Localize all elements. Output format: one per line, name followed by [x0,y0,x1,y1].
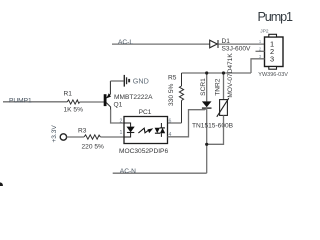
ground GND [124,75,130,87]
wire PUMP1 line [3,101,67,103]
optocoupler PC1 box [124,117,168,144]
svg-text:R3: R3 [78,128,87,135]
wire JP2 pin3 to bus [251,59,265,73]
resistor R1 [67,100,79,104]
svg-text:Pump1: Pump1 [258,10,293,24]
svg-text:R1: R1 [64,91,73,98]
svg-text:GND: GND [133,77,149,86]
light arrow inside PC1 [138,128,153,133]
svg-text:D1: D1 [222,38,231,45]
svg-text:MOC3052PDIP6: MOC3052PDIP6 [119,148,168,155]
svg-text:Q1: Q1 [114,101,123,108]
svg-text:SCR1: SCR1 [200,78,207,96]
wire +3.3V to R3 [67,136,84,138]
svg-text:220 5%: 220 5% [82,144,105,151]
junction dot bus-TNR [222,71,225,74]
connector JP2 [265,34,284,69]
wire AC-N line [113,172,207,174]
svg-text:2: 2 [120,118,123,124]
wire JP2 pin2 stub [256,50,265,52]
wire PC1 pin4 to SCR gate [168,108,207,137]
junction dot SCR-TNR bottom [205,143,208,146]
wire Q1 emitter to GND [110,80,123,82]
junction dot bus-SCR [205,71,208,74]
svg-text:330 5%: 330 5% [168,83,175,106]
svg-text:PUMP1: PUMP1 [9,97,32,104]
svg-text:AC-N: AC-N [120,168,136,175]
svg-text:1K 5%: 1K 5% [64,107,84,114]
svg-text:AC-L: AC-L [118,39,133,46]
diode D1 [210,40,218,48]
LED inside PC1 [124,123,135,137]
svg-text:TNR2: TNR2 [214,78,221,96]
svg-text:JP2: JP2 [260,29,269,35]
wire AC-L line [112,43,210,45]
wire bus MT2 [182,72,252,74]
thyristor SCR1 [202,73,212,173]
triac inside PC1 [155,123,166,137]
resistor R5 [179,73,183,123]
wire R3 to PC1 pin1 [101,136,125,138]
resistor R3 [84,135,101,139]
svg-text:YW396-03V: YW396-03V [258,72,288,78]
svg-text:PC1: PC1 [139,109,152,116]
svg-text:MOV-07D471K: MOV-07D471K [227,53,234,98]
wire R1 to Q1 base [80,101,104,103]
transistor Q1 [104,81,111,110]
svg-text:1: 1 [259,39,262,44]
power +3.3V port [60,134,66,140]
svg-text:3: 3 [270,54,274,63]
svg-text:6: 6 [169,118,172,124]
wire R5 to PC1 pin6 [168,122,182,124]
svg-text:+3.3V: +3.3V [51,125,58,143]
varistor TNR2 [207,73,229,144]
svg-text:1: 1 [120,130,123,136]
corner mark bottom-left [0,182,3,188]
svg-text:MMBT2222A: MMBT2222A [114,94,153,101]
svg-text:S3J-600V: S3J-600V [222,45,252,52]
wire Q1 collector to PC1 pin2 [111,110,124,124]
svg-text:R5: R5 [168,74,177,81]
wire diode to JP2 pin1 [219,43,265,45]
svg-text:TN1515-600B: TN1515-600B [192,122,234,129]
